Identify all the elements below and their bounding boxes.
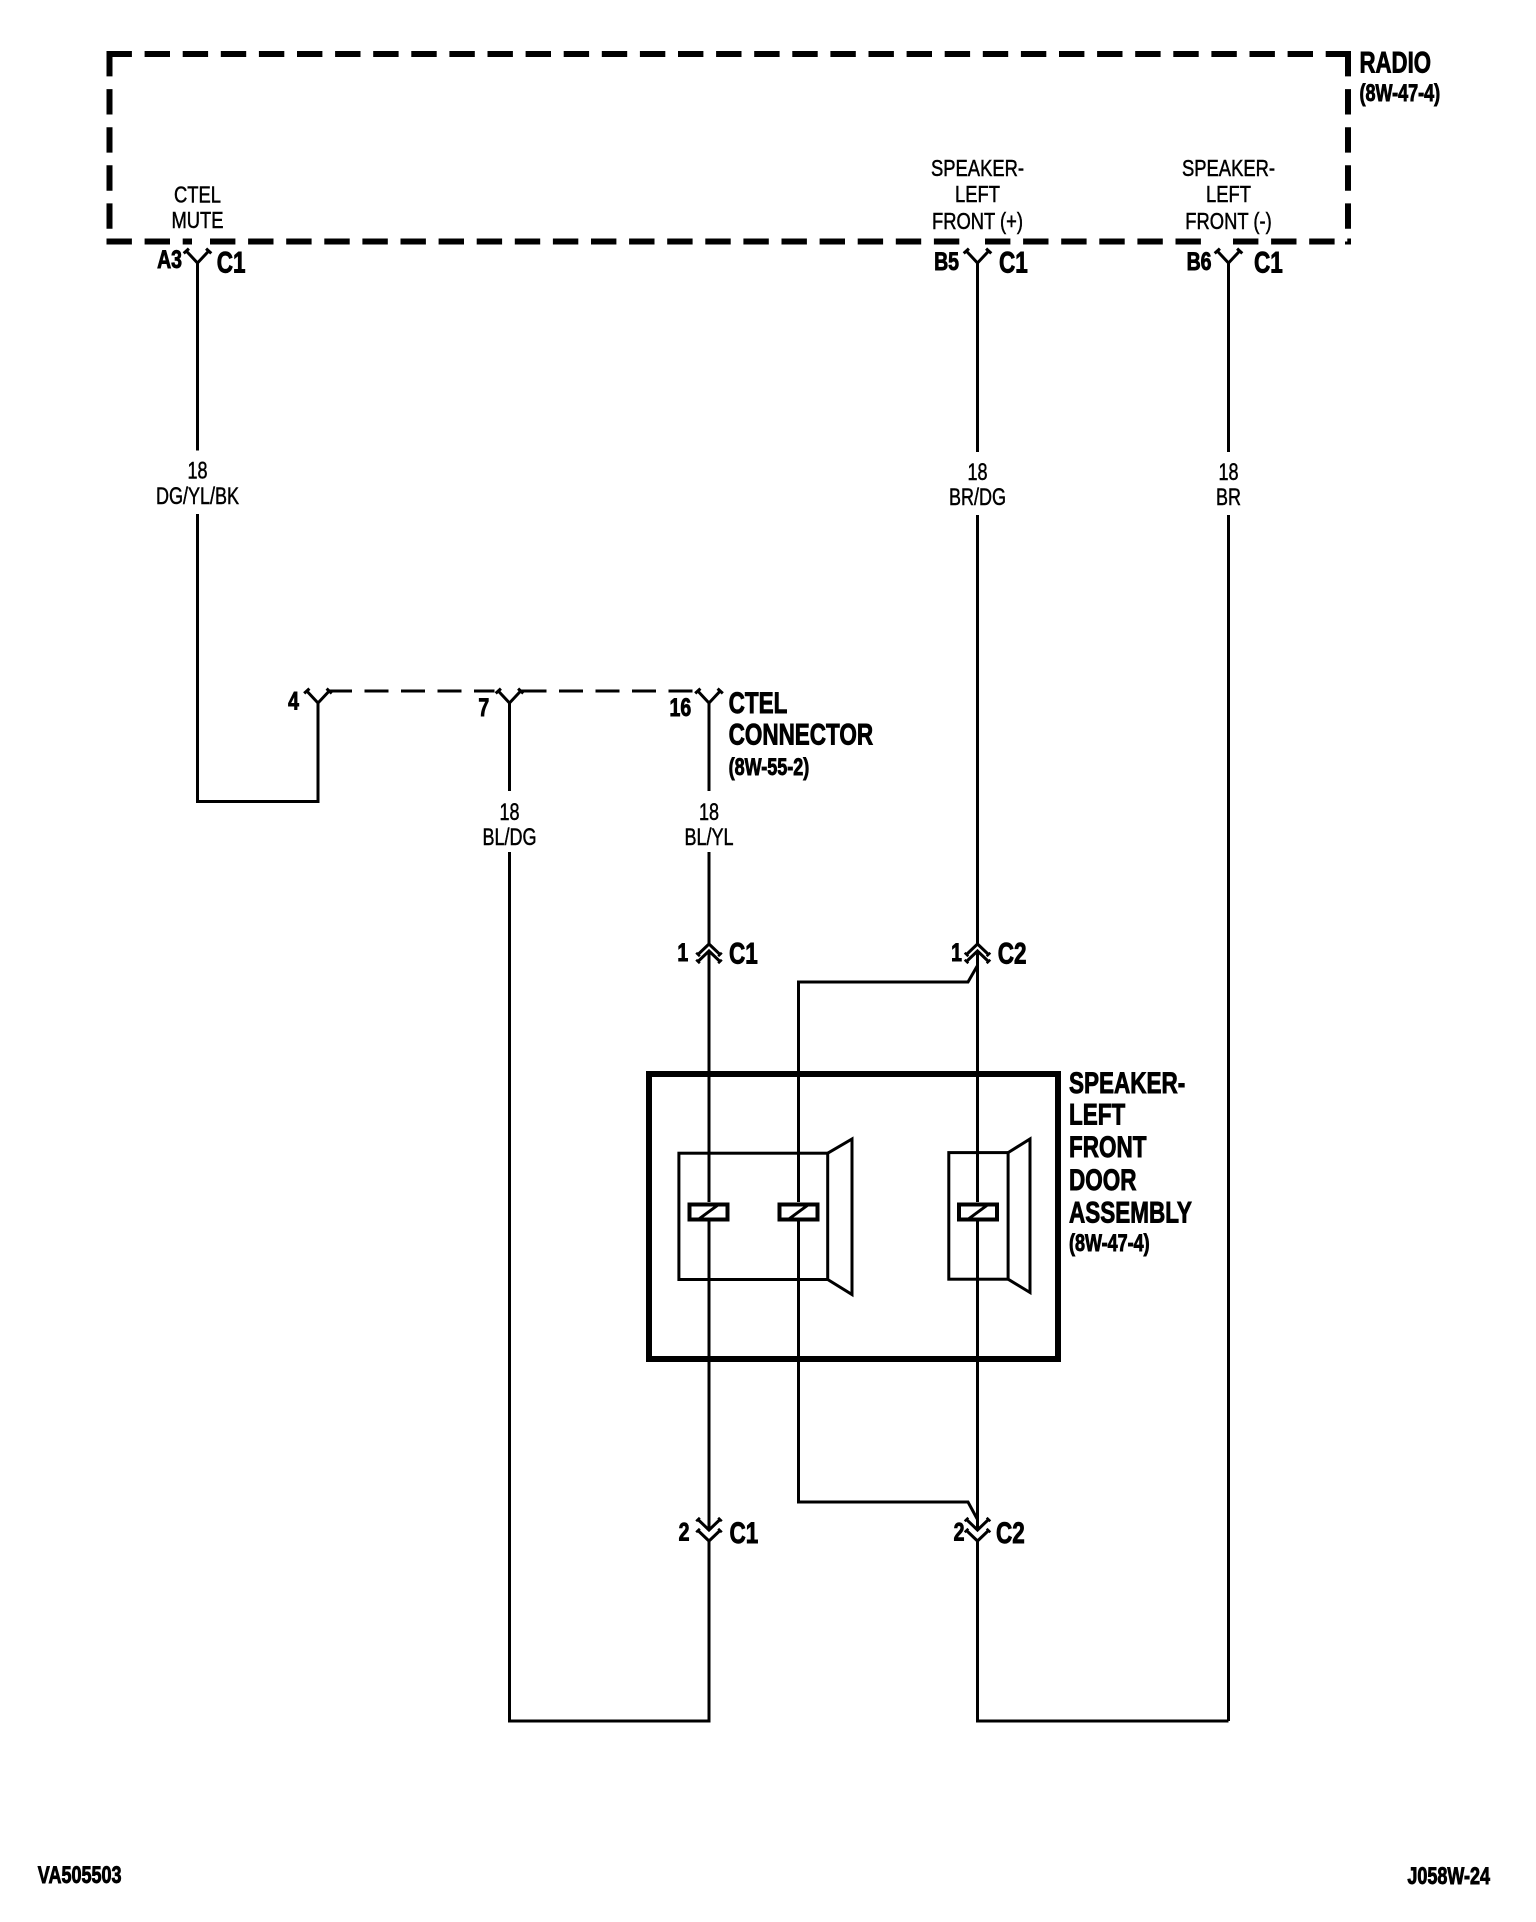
svg-text:1: 1: [951, 939, 962, 967]
svg-text:RADIO: RADIO: [1360, 45, 1432, 79]
svg-text:ASSEMBLY: ASSEMBLY: [1069, 1196, 1192, 1230]
svg-text:BL/YL: BL/YL: [684, 825, 733, 851]
connector Y at CTEL pin 4: [304, 689, 352, 703]
RADIO dashed box: [107, 51, 1352, 245]
right speaker cone: [1008, 1139, 1030, 1293]
svg-text:16: 16: [670, 694, 692, 722]
svg-text:B5: B5: [934, 248, 959, 276]
svg-text:FRONT (-): FRONT (-): [1185, 209, 1271, 234]
svg-text:DOOR: DOOR: [1069, 1163, 1136, 1197]
left speaker rectangle: [679, 1153, 828, 1279]
wire BL/YL from pin 16: [708, 703, 711, 944]
wire DG/YL/BK from A3: [198, 263, 319, 802]
connector chevrons 2 C2 (down): [967, 1520, 989, 1542]
svg-text:C1: C1: [999, 245, 1028, 279]
svg-text:18: 18: [187, 458, 207, 484]
svg-text:LEFT: LEFT: [1206, 182, 1251, 207]
svg-text:DG/YL/BK: DG/YL/BK: [156, 484, 239, 510]
wire speaker C1 vertical: [708, 951, 711, 1530]
svg-text:SPEAKER-: SPEAKER-: [1182, 156, 1275, 181]
speaker assembly box: [649, 1074, 1058, 1359]
wire speaker C2 vertical: [976, 951, 979, 1530]
svg-text:2: 2: [679, 1518, 690, 1546]
svg-text:CTEL: CTEL: [729, 686, 788, 720]
connector Y at CTEL pin 7: [496, 689, 547, 703]
svg-text:C1: C1: [1254, 245, 1283, 279]
connector Y at radio pin B5: [964, 249, 992, 263]
dashed harness wire pin4 to pin7: [352, 690, 495, 693]
svg-text:LEFT: LEFT: [955, 182, 1000, 207]
connector chevrons 1 C2 (up): [967, 944, 989, 962]
svg-text:18: 18: [699, 800, 719, 826]
svg-text:B6: B6: [1187, 248, 1212, 276]
svg-text:(8W-55-2): (8W-55-2): [729, 755, 810, 781]
svg-text:18: 18: [967, 460, 987, 486]
svg-text:C1: C1: [729, 936, 758, 970]
left speaker cone: [828, 1139, 852, 1295]
terminal box pin1 C1: [690, 1205, 728, 1220]
wire speaker C2 branch top: [799, 966, 978, 1203]
svg-text:BR: BR: [1216, 485, 1241, 511]
svg-text:FRONT: FRONT: [1069, 1130, 1146, 1164]
svg-text:LEFT: LEFT: [1069, 1097, 1125, 1131]
dashed harness wire pin7 to pin16: [547, 690, 695, 693]
connector Y at radio pin A3: [184, 249, 212, 263]
wire B5 BR/DG: [976, 263, 979, 944]
svg-text:C1: C1: [217, 245, 246, 279]
connector chevrons 1 C1 (up): [698, 944, 720, 962]
wire 2 C2 to B6 net: [978, 1541, 1229, 1721]
svg-text:SPEAKER-: SPEAKER-: [1069, 1066, 1185, 1100]
terminal box pin C2 left: [780, 1205, 818, 1220]
svg-text:(8W-47-4): (8W-47-4): [1360, 81, 1441, 107]
svg-text:C2: C2: [998, 936, 1027, 970]
wire speaker C2 branch bottom: [799, 1222, 978, 1520]
svg-text:CTEL: CTEL: [174, 183, 221, 208]
wire B6 BR: [1227, 263, 1230, 1721]
svg-text:(8W-47-4): (8W-47-4): [1069, 1231, 1150, 1257]
svg-text:18: 18: [1218, 460, 1238, 486]
svg-text:MUTE: MUTE: [171, 208, 223, 233]
connector Y at radio pin B6: [1215, 249, 1243, 263]
svg-text:4: 4: [288, 687, 299, 715]
connector chevrons 2 C1 (down): [698, 1520, 720, 1542]
wire BL/DG from pin 7: [510, 703, 710, 1721]
right speaker rectangle: [949, 1153, 1008, 1280]
svg-text:SPEAKER-: SPEAKER-: [931, 156, 1024, 181]
terminal box C2 right: [959, 1205, 997, 1220]
svg-text:C2: C2: [996, 1516, 1025, 1550]
svg-text:C1: C1: [730, 1516, 759, 1550]
svg-text:1: 1: [677, 939, 688, 967]
svg-text:18: 18: [499, 800, 519, 826]
svg-text:CONNECTOR: CONNECTOR: [729, 717, 874, 751]
svg-text:A3: A3: [157, 246, 182, 274]
svg-text:2: 2: [954, 1518, 965, 1546]
svg-text:VA505503: VA505503: [38, 1863, 122, 1889]
svg-text:BL/DG: BL/DG: [482, 825, 536, 851]
svg-text:J058W-24: J058W-24: [1407, 1864, 1490, 1890]
connector Y at CTEL pin 16: [695, 689, 723, 703]
svg-text:FRONT (+): FRONT (+): [932, 209, 1023, 234]
svg-text:7: 7: [478, 694, 489, 722]
svg-text:BR/DG: BR/DG: [949, 485, 1006, 511]
